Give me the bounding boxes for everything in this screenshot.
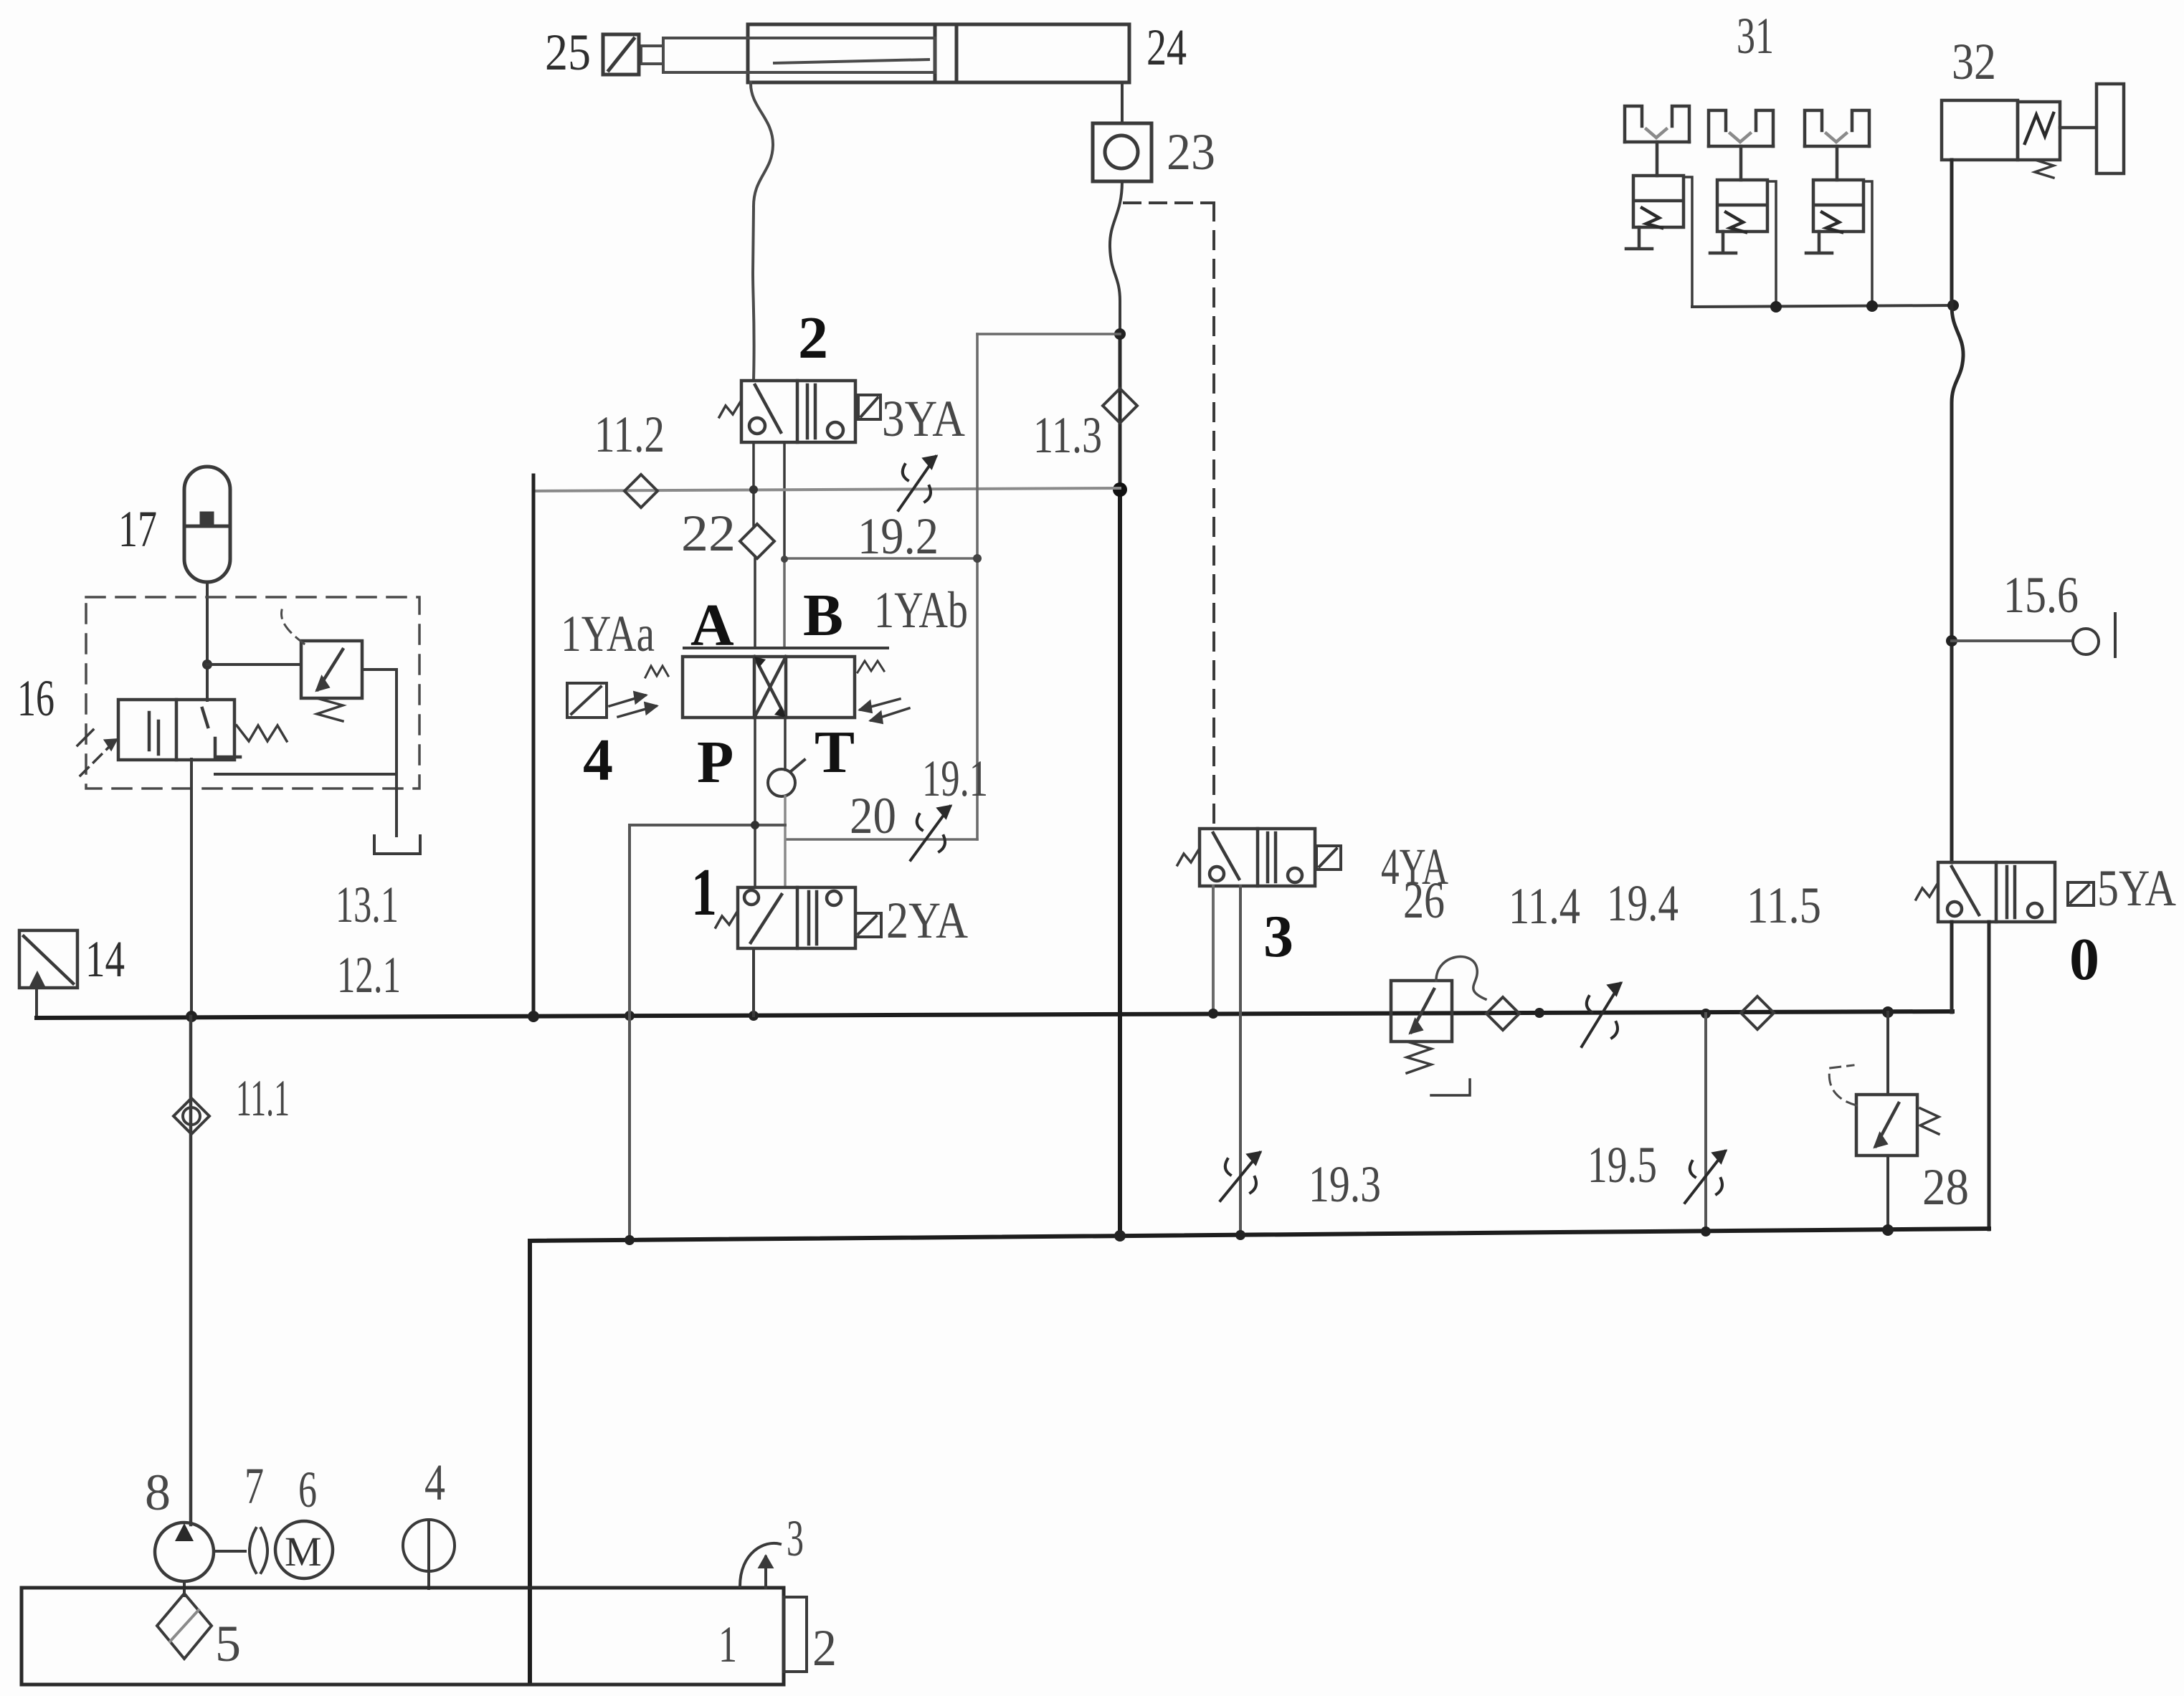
node bus/valve3 [1208, 1009, 1218, 1019]
accumulator 17 [184, 467, 230, 582]
throttle 19.3 [1220, 1153, 1260, 1201]
node L4/P [751, 821, 759, 829]
proportional arrows right [860, 699, 909, 723]
wire valve 2 right port down [783, 442, 786, 558]
dashed pilot line to valve 3 (horizontal) [1124, 201, 1214, 204]
pressure switch 15.6 [2073, 614, 2115, 657]
solenoid 4YA of valve 3 [1316, 846, 1341, 870]
wire A-port drop (valve2 to valve rail) [754, 558, 756, 648]
svg-text:11.1: 11.1 [236, 1069, 290, 1127]
throttle 19.5 [1685, 1151, 1725, 1203]
pump shaft [214, 1550, 245, 1553]
wire valve 3 right port drain [1239, 886, 1242, 1234]
svg-text:T: T [815, 719, 855, 786]
wire to relief valve 13.1 [207, 663, 301, 666]
relief valve 13.1 [301, 641, 362, 698]
svg-text:14: 14 [85, 930, 125, 988]
svg-text:3: 3 [1263, 903, 1293, 970]
pilot curve of relief 13.1 [281, 610, 304, 644]
wire pilot V3 to B port [783, 558, 786, 648]
cylinder 24 body [748, 24, 1129, 82]
motor 6 [275, 1521, 333, 1578]
wire trunk from valve 23 down (with jog) [1110, 181, 1122, 334]
svg-text:4: 4 [583, 727, 613, 794]
gauge 4 [403, 1520, 455, 1588]
solenoid 2YA of valve 1 [855, 913, 881, 937]
wire trunk lower segment [1118, 490, 1122, 1237]
node bus/trunk 32 [1947, 300, 1959, 311]
svg-text:11.4: 11.4 [1509, 877, 1580, 935]
node L6/28 [1882, 1224, 1894, 1236]
wire V1 standpipe [532, 475, 536, 1016]
dashed enclosure 12.1 [86, 597, 419, 789]
spring of valve 2 [719, 401, 741, 417]
node pilot corner V2/L3 [973, 554, 982, 563]
svg-text:5YA: 5YA [2097, 859, 2176, 917]
valve 1 body [738, 887, 855, 948]
wire relief 28 drain [1886, 1156, 1889, 1230]
wire valve 1 outlet to main bus [752, 948, 755, 1016]
throttle 19.4 [1582, 983, 1620, 1047]
solenoid 5YA of valve 0 [2068, 882, 2094, 905]
wire filter stub [35, 988, 38, 1018]
wire pilot L3 [783, 557, 977, 560]
check valve 22 [740, 524, 774, 558]
wire right trunk with jog [1952, 306, 1963, 641]
clamp cylinder unit 31c [1805, 110, 1869, 253]
drain stub end bracket [374, 836, 420, 854]
solenoid 1YAa box [567, 683, 607, 718]
throttle 19.1 [911, 806, 950, 860]
pilot curl of valve 26 [1436, 957, 1486, 999]
spring of valve 1 [716, 912, 737, 928]
wire cylinder cap-side port to valve 23 [1121, 82, 1124, 123]
position sensor 25 [603, 34, 639, 75]
check valve 11.1 [174, 1098, 209, 1134]
wire drain link inside box [215, 773, 397, 776]
wire L4 pump branch [630, 824, 785, 826]
check valve 11.3 [1103, 389, 1137, 423]
piston of cylinder 24 [935, 24, 956, 82]
node bus mid [1534, 1008, 1544, 1018]
spring of relief 28 [1920, 1108, 1939, 1134]
svg-text:24: 24 [1146, 19, 1187, 76]
svg-text:19.2: 19.2 [858, 508, 939, 565]
svg-text:19.4: 19.4 [1607, 875, 1679, 932]
svg-text:4: 4 [424, 1454, 445, 1511]
clamp cylinder unit 31a [1625, 106, 1689, 249]
piston rod of cylinder 24 [663, 38, 935, 72]
node junction at relief branch [202, 659, 212, 670]
svg-text:2: 2 [812, 1619, 837, 1677]
svg-text:P: P [697, 729, 733, 796]
tank 1 [22, 1588, 784, 1685]
wire tank return drop [528, 1241, 532, 1683]
svg-text:16: 16 [17, 670, 54, 727]
wire valve 16 outlet down to pump riser [190, 759, 193, 1016]
svg-text:7: 7 [244, 1457, 264, 1515]
wire valve 0 right port drain [1988, 922, 1991, 1229]
wire P port down [754, 718, 756, 887]
spring of valve 3 [1177, 849, 1199, 865]
node L6/valve3 drain [1235, 1230, 1245, 1240]
node main bus / V1 [528, 1011, 539, 1022]
check valve 11.5 [1741, 996, 1774, 1029]
svg-text:20: 20 [850, 787, 896, 844]
svg-text:A: A [690, 592, 734, 659]
arrow of filter 14 [29, 971, 46, 988]
wire T port to check 20 [784, 718, 787, 770]
valve 2 body [741, 381, 855, 442]
spring of valve 26 [1407, 1042, 1431, 1073]
node bus/drop 31b [1770, 301, 1782, 313]
wire to relief 28 [1886, 1012, 1889, 1095]
arrow blobs of main valve [754, 657, 786, 718]
node main bus / x878 [625, 1011, 635, 1021]
svg-text:1: 1 [718, 1616, 737, 1673]
check valve 20 [768, 760, 804, 796]
wire main pressure bus [37, 1011, 1952, 1018]
node junction trunk/L1 [1113, 482, 1127, 497]
wire from cylinder rod-side port down to valve 2 (wavy) [751, 82, 773, 381]
wire pump riser [189, 1016, 193, 1525]
check valve 11.2 [625, 475, 657, 508]
wire return header L6 [530, 1229, 1989, 1241]
wire valve 0 left port to bus [1950, 922, 1954, 1012]
drain bracket of valve 26 [1431, 1080, 1470, 1095]
svg-text:6: 6 [298, 1461, 317, 1518]
svg-text:19.5: 19.5 [1587, 1136, 1657, 1194]
svg-text:1YAa: 1YAa [561, 605, 655, 662]
pilot arrow of valve 16 [77, 730, 116, 776]
svg-text:15.6: 15.6 [2003, 566, 2079, 624]
svg-text:11.5: 11.5 [1747, 877, 1821, 934]
svg-text:12.1: 12.1 [337, 946, 401, 1004]
clamp cylinder unit 31b [1709, 110, 1773, 253]
valve 23 (gauge isolator) [1093, 123, 1152, 181]
node L1/valve2 [749, 485, 758, 494]
svg-text:17: 17 [118, 500, 157, 558]
check valve 11.4 [1486, 997, 1519, 1030]
main valve body (servo valve) [683, 657, 855, 718]
node pilot corner L3/V3 [781, 556, 788, 563]
wire valve 2 left port down [752, 442, 755, 525]
svg-text:32: 32 [1952, 33, 1996, 90]
wire clamp bus [1692, 305, 1953, 307]
svg-text:M: M [285, 1528, 322, 1575]
wire valve 3 left port [1212, 886, 1215, 1014]
proportional arrows left [609, 692, 656, 717]
spring left of main valve [645, 666, 668, 677]
wire drop 31b [1767, 181, 1776, 307]
wire drop 31a [1684, 177, 1692, 307]
svg-text:2: 2 [798, 305, 828, 371]
node 15.6 branch [1946, 635, 1957, 647]
node L6/x878 [625, 1235, 635, 1245]
level gauge 2 [784, 1597, 807, 1672]
filter 14 [19, 930, 77, 988]
wire 32 to clamp bus and down [1950, 160, 1954, 306]
node L6/trunk [1114, 1230, 1126, 1242]
wire accumulator to valve 16 [206, 582, 209, 700]
relief valve 28 [1856, 1095, 1917, 1156]
rod coupling [641, 46, 663, 64]
node bus / relief 28 [1882, 1006, 1894, 1018]
node bus/drop 31c [1866, 300, 1878, 312]
solenoid 3YA of valve 2 [858, 395, 880, 419]
spring of valve 0 [1916, 884, 1937, 900]
spring of valve 16 [237, 725, 287, 741]
breather 3 [740, 1543, 780, 1588]
svg-text:3YA: 3YA [882, 390, 965, 447]
svg-text:2YA: 2YA [886, 892, 968, 949]
svg-text:26: 26 [1403, 872, 1445, 929]
svg-text:1YAb: 1YAb [874, 581, 968, 639]
svg-text:28: 28 [1922, 1158, 1969, 1216]
svg-text:1: 1 [691, 855, 717, 930]
node main bus / valve16 riser [186, 1011, 197, 1022]
coupling 7 [250, 1528, 267, 1573]
throttle 19.2 [898, 457, 936, 510]
node junction trunk/L2 [1114, 328, 1126, 340]
wire pilot L5 [786, 838, 977, 841]
wire x878 drop [628, 825, 631, 1241]
pump outlet triangle [175, 1523, 194, 1541]
pilot curve of relief 28 [1829, 1065, 1856, 1105]
svg-text:0: 0 [2069, 926, 2099, 993]
brake actuator 32 [1942, 84, 2124, 178]
svg-text:19.1: 19.1 [922, 750, 988, 807]
svg-text:13.1: 13.1 [336, 876, 399, 933]
valve 0 body [1938, 862, 2055, 922]
reducing valve 26 [1391, 981, 1452, 1042]
svg-text:5: 5 [215, 1615, 241, 1672]
svg-text:22: 22 [681, 505, 736, 562]
wire drop 31c [1863, 181, 1872, 307]
wire 19.5 drop [1704, 1014, 1707, 1232]
svg-text:8: 8 [145, 1464, 171, 1521]
wire pilot V2 [976, 334, 979, 839]
wire pilot L2 [977, 333, 1120, 335]
wire relief outlet to drain stub [362, 670, 397, 836]
spring right of main valve [858, 661, 884, 672]
suction filter 5 [157, 1593, 212, 1659]
wire pilot header L1 [533, 488, 1120, 491]
svg-text:25: 25 [545, 24, 591, 81]
svg-text:11.3: 11.3 [1033, 406, 1102, 464]
valve 3 body [1200, 829, 1315, 886]
valve 16 body [118, 700, 240, 760]
node main bus / valve1 drop [749, 1011, 759, 1021]
valve port rail [684, 647, 888, 649]
svg-text:3: 3 [787, 1510, 804, 1567]
svg-text:B: B [803, 582, 843, 649]
wire trunk middle segment [1119, 334, 1122, 490]
svg-text:31: 31 [1737, 7, 1774, 65]
node bus / 19.5 drop [1701, 1009, 1711, 1019]
svg-text:11.2: 11.2 [594, 406, 665, 463]
svg-text:19.3: 19.3 [1309, 1156, 1381, 1213]
pump 8 [155, 1523, 214, 1581]
spring of relief valve 13.1 [317, 698, 343, 721]
pressure switch 15.6 wire [1952, 639, 2073, 642]
dashed pilot line to valve 3 (vertical) [1212, 203, 1215, 829]
pump suction [183, 1581, 186, 1596]
wire right trunk to valve 0 [1950, 641, 1954, 862]
svg-text:23: 23 [1167, 123, 1215, 181]
wire check 20 down to valve 1 [784, 796, 787, 887]
node L6/19.5 [1701, 1226, 1711, 1237]
